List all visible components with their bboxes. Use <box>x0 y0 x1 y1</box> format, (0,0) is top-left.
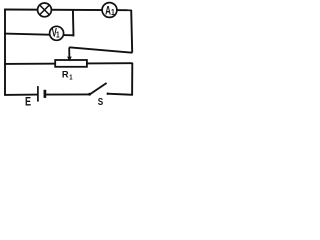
wire: top horizontal <box>4 9 132 12</box>
label S <box>98 96 103 107</box>
wire: right vertical lower (rheostat row to bottom wire) <box>131 63 133 96</box>
wire: rheostat row horizontal <box>4 62 132 65</box>
switch S <box>88 83 109 96</box>
svg-text:R: R <box>62 70 69 80</box>
wire: bottom horizontal <box>4 94 133 95</box>
wire: slider wire horizontal <box>69 47 132 52</box>
wire: voltmeter row horizontal <box>4 34 73 36</box>
svg-text:E: E <box>25 96 31 108</box>
svg-text:1: 1 <box>56 30 60 40</box>
wire: mid-branch vertical (top wire to voltmeter row) <box>72 10 75 37</box>
svg-text:1: 1 <box>69 74 73 82</box>
voltmeter V1 <box>50 26 64 40</box>
wire: right vertical upper (top wire to slider wire) <box>131 10 132 53</box>
wire: left vertical <box>4 9 6 96</box>
rheostat R1 slider arrow <box>67 47 72 61</box>
ammeter A1 <box>102 3 117 18</box>
rheostat R1 body <box>55 60 87 67</box>
battery E <box>38 86 45 102</box>
label R1 <box>62 70 73 82</box>
svg-text:1: 1 <box>111 7 115 17</box>
lamp <box>38 3 52 17</box>
svg-text:S: S <box>98 96 103 107</box>
label E <box>25 96 31 108</box>
